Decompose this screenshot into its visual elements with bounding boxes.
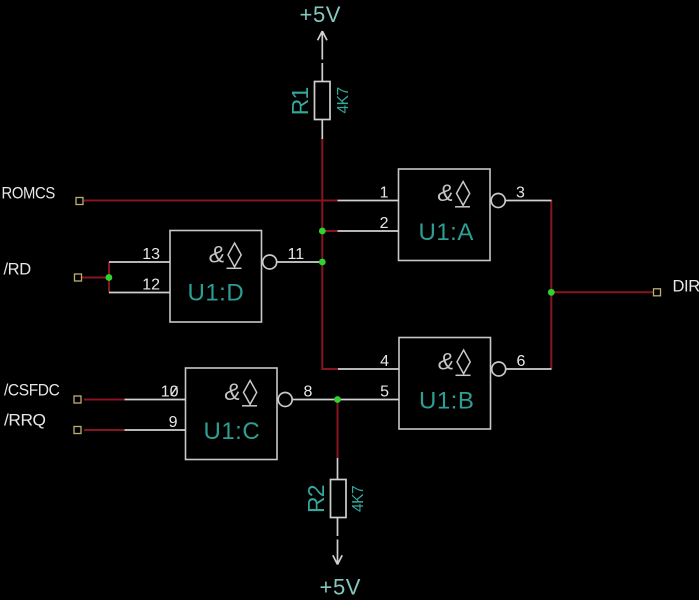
svg-text:U1:A: U1:A bbox=[419, 219, 474, 246]
wire: ROMCS horizontal bbox=[84, 200, 338, 202]
svg-text:12: 12 bbox=[142, 277, 160, 294]
resistor R1 bbox=[315, 82, 331, 140]
svg-text:8: 8 bbox=[304, 384, 313, 401]
junction dot DIR tap bbox=[548, 289, 555, 296]
svg-text:4K7: 4K7 bbox=[335, 87, 352, 113]
svg-text:ROMCS: ROMCS bbox=[2, 185, 55, 203]
terminal ROMCS bbox=[76, 198, 83, 205]
nand gate U1:C bbox=[125, 368, 338, 460]
power symbol +5V bottom bbox=[333, 518, 342, 565]
wire: /RD to junction bbox=[82, 262, 109, 293]
svg-text:/RRQ: /RRQ bbox=[4, 411, 46, 430]
svg-text:&: & bbox=[438, 349, 454, 376]
svg-text:R1: R1 bbox=[287, 87, 313, 115]
nand gate U1:A bbox=[338, 169, 552, 261]
svg-text:4: 4 bbox=[380, 353, 389, 370]
wire: /RRQ stub bbox=[84, 429, 125, 431]
svg-text:&: & bbox=[224, 379, 240, 406]
svg-text:2: 2 bbox=[380, 215, 389, 232]
junction dot pin11 join bbox=[319, 259, 326, 266]
svg-text:&: & bbox=[437, 180, 453, 207]
wire: R1 pull-up net vertical bbox=[322, 139, 338, 369]
svg-text:R2: R2 bbox=[303, 485, 329, 513]
resistor R2 bbox=[331, 458, 347, 518]
wire: DIR horizontal bbox=[551, 291, 654, 293]
junction dot pin8/pin5 bbox=[334, 396, 341, 403]
svg-text:5: 5 bbox=[380, 384, 389, 401]
svg-text:/CSFDC: /CSFDC bbox=[4, 382, 59, 400]
terminal DIR bbox=[654, 289, 661, 296]
svg-text:U1:B: U1:B bbox=[419, 388, 474, 415]
pin number 10 (slashed zero) bbox=[161, 384, 179, 401]
svg-text:1: 1 bbox=[380, 185, 389, 202]
terminal /RD bbox=[75, 274, 82, 281]
svg-text:&: & bbox=[209, 242, 225, 269]
svg-text:6: 6 bbox=[517, 353, 526, 370]
svg-text:4K7: 4K7 bbox=[350, 486, 367, 512]
wire: R2 pull-up vertical bbox=[337, 400, 339, 459]
terminal /CSFDC bbox=[74, 396, 81, 403]
junction dot /RD split bbox=[106, 274, 113, 281]
terminal /RRQ bbox=[74, 427, 81, 434]
svg-text:9: 9 bbox=[169, 414, 178, 431]
power symbol +5V top bbox=[318, 31, 327, 82]
svg-text:/RD: /RD bbox=[4, 261, 32, 279]
svg-text:13: 13 bbox=[142, 246, 160, 263]
svg-text:10: 10 bbox=[161, 384, 179, 401]
wire: /CSFDC stub bbox=[84, 399, 125, 401]
nand gate U1:D bbox=[109, 231, 322, 323]
svg-text:11: 11 bbox=[288, 246, 305, 263]
svg-text:DIR: DIR bbox=[673, 278, 699, 296]
junction dot pin2 tap bbox=[319, 228, 326, 235]
wire: stub to pin 2 bbox=[322, 230, 337, 232]
wire: output bus vertical pin3 to pin6 bbox=[550, 201, 552, 370]
svg-text:+5V: +5V bbox=[300, 2, 342, 27]
svg-text:U1:D: U1:D bbox=[188, 280, 245, 307]
svg-text:3: 3 bbox=[516, 185, 525, 202]
svg-text:+5V: +5V bbox=[320, 575, 362, 600]
svg-text:U1:C: U1:C bbox=[204, 418, 261, 445]
nand gate U1:B bbox=[338, 338, 552, 430]
